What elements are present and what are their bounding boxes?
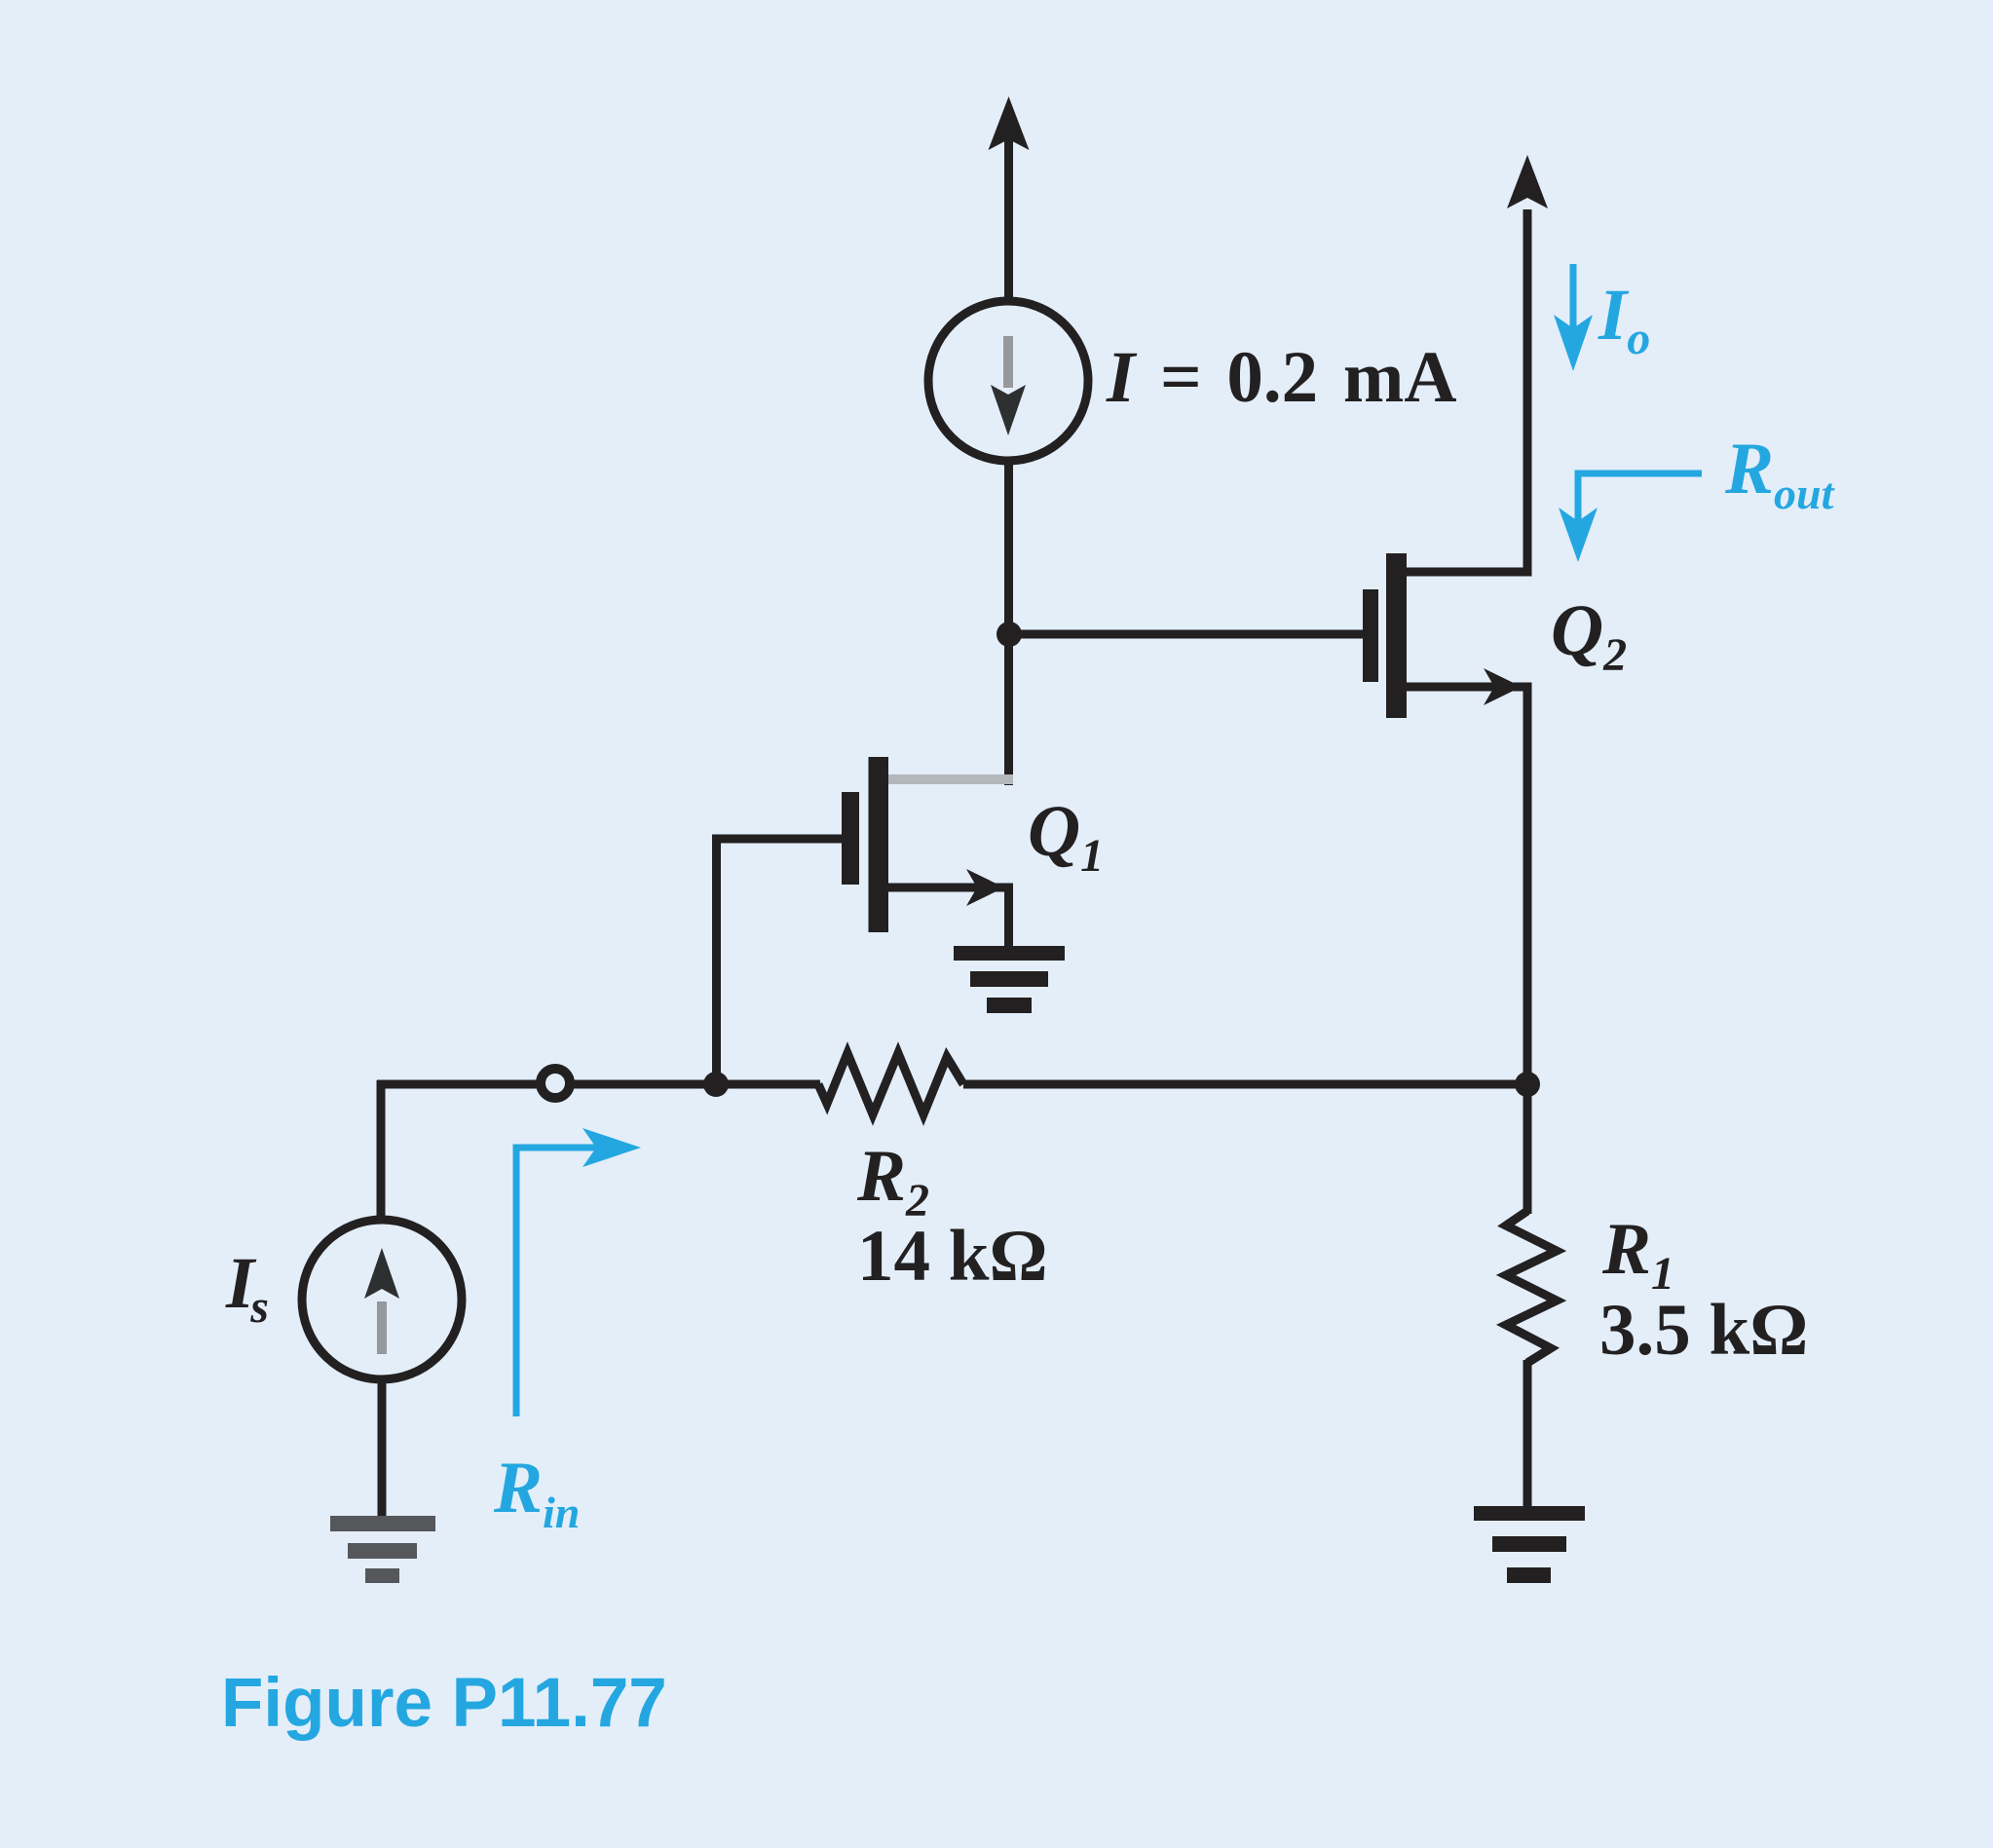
wire node A to Q2 gate [1009,630,1364,639]
wire Is to ground [378,1379,387,1519]
svg-text:3.5 kΩ: 3.5 kΩ [1599,1290,1808,1371]
power rail arrow (top left supply) [989,96,1030,305]
ground (below R1) [1474,1506,1585,1583]
svg-text:Rout: Rout [1724,429,1835,518]
wire Q1 gate to input node B [717,839,843,1076]
current source Is [302,1220,462,1379]
svg-text:Figure P11.77: Figure P11.77 [221,1665,667,1742]
svg-text:Io: Io [1598,275,1650,364]
annotation Io arrow [1554,264,1593,371]
svg-text:14 kΩ: 14 kΩ [857,1216,1048,1297]
annotation Rout arrow [1559,473,1702,562]
svg-text:R1: R1 [1601,1209,1674,1300]
node A junction dot [996,622,1022,647]
svg-text:R2: R2 [856,1136,929,1226]
transistor Q1 [842,757,1013,949]
wire R1 to ground [1523,1360,1532,1509]
svg-text:Is: Is [225,1243,269,1333]
ground (Q1 source) [954,946,1065,1013]
resistor R1 [1506,1211,1557,1363]
wire input corner to open terminal [377,1080,538,1224]
annotation Rin arrow [516,1128,641,1416]
input terminal (open circle) [541,1069,570,1098]
resistor R2 [818,1053,963,1114]
node C junction dot [1515,1072,1540,1097]
current source I (0.2 mA) [928,301,1088,461]
svg-text:I = 0.2 mA: I = 0.2 mA [1106,337,1457,418]
svg-text:Q1: Q1 [1028,791,1104,882]
wire current source to node A [1004,461,1013,634]
ground (below Is) [330,1516,435,1583]
transistor Q2 [1363,209,1527,1088]
wire open terminal to node B [573,1080,721,1089]
wire node C to R1 [1523,1084,1532,1214]
node B junction dot [703,1072,729,1097]
output rail arrow (top right) [1507,155,1548,208]
svg-text:Rin: Rin [493,1448,580,1537]
svg-text:Q2: Q2 [1551,590,1627,681]
wire node B to R2 [716,1080,820,1089]
wire node A to Q1 drain [1004,634,1013,785]
wire R2 to node C [963,1080,1527,1089]
